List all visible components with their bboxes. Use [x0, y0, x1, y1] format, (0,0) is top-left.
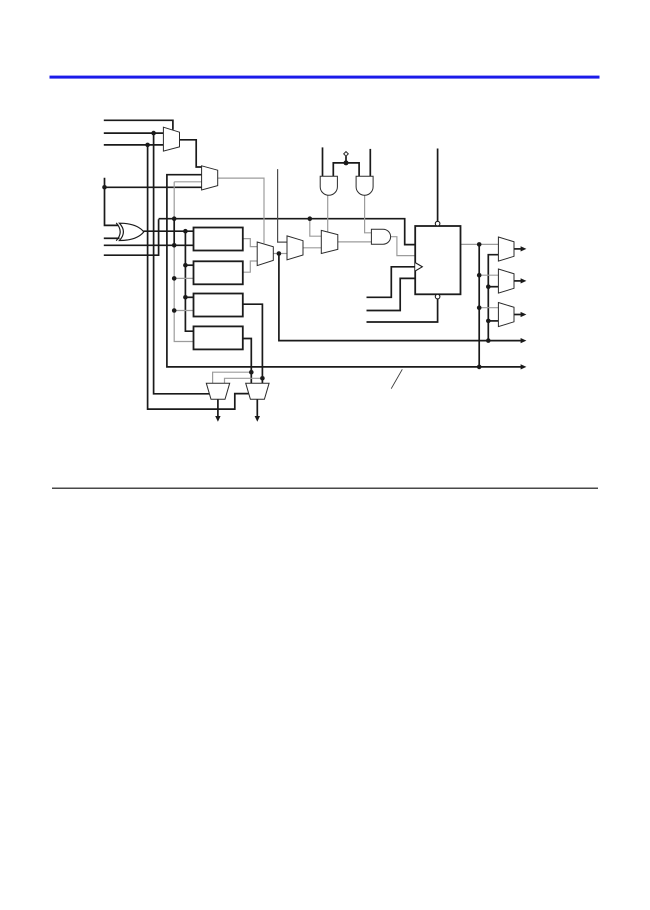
node dot input2	[151, 131, 156, 136]
wire stub to output mux M4 upper input	[479, 243, 498, 245]
wire mux M3 input stub	[278, 169, 287, 242]
and gate G2	[356, 176, 373, 195]
wire U1 Q vertical distribution	[478, 244, 480, 367]
wire mux MC output to gate G3	[338, 241, 372, 243]
wire input 6 to register REG1 clock	[104, 244, 194, 246]
wire input 1 to mux M1 top	[104, 120, 173, 130]
arrowhead mux M4 output	[521, 246, 527, 251]
wire gate G3 output to U1	[391, 237, 416, 256]
wire REG4 output down to mux M8	[243, 339, 252, 384]
xor gate X1 back arc	[116, 223, 120, 241]
wire stub to REG3 data	[185, 296, 193, 298]
node dot XOR output	[183, 229, 188, 234]
header rule (blue)	[50, 76, 600, 79]
wire input stub to XOR X1 top	[105, 178, 119, 226]
node dot Q to out wire	[477, 365, 482, 370]
wire mux M3 output to mux MC	[303, 247, 321, 249]
wire feedback Q to mux M2 and out arrow	[167, 175, 521, 367]
wire stub to output mux M4 lower input	[488, 286, 498, 288]
wire input 5 to XOR X1 bottom	[104, 237, 120, 239]
node dot feedback wire	[486, 338, 491, 343]
mux M3	[287, 236, 303, 260]
wire U1 Q output	[461, 243, 480, 245]
xor gate X1 body	[119, 223, 143, 240]
wire select vertical to mux M8 (right)	[148, 145, 249, 409]
node dot REG4 branch	[249, 370, 254, 375]
mux M7	[206, 383, 229, 399]
wire stub to output mux M5 upper input	[479, 274, 498, 276]
mux M2	[202, 166, 218, 190]
output mux M4	[498, 237, 514, 261]
wire mux M1 output to mux M2	[180, 140, 202, 167]
wire distribution lower grey to REG4 clock	[174, 245, 193, 341]
wire stub to REG2 clock	[174, 277, 193, 279]
wire output arrow of mux M4	[514, 248, 521, 250]
wire REG2 output to mux MA	[243, 261, 257, 272]
mux M1	[163, 127, 179, 151]
wire REG1 output to mux MA	[243, 239, 257, 247]
node dot REG2 data	[183, 263, 188, 268]
wire enable staircase to U1	[367, 278, 416, 310]
arrowhead mux M8 output	[255, 416, 260, 422]
wire branch REG3 path to mux M7	[225, 378, 263, 383]
clock triangle of U1	[415, 263, 422, 271]
output mux M6	[498, 303, 514, 327]
wire stub gate G2 right input	[369, 149, 371, 176]
node dot input4	[102, 185, 107, 190]
node dot REG1 clock	[172, 243, 177, 248]
wire output arrow of mux M6	[514, 314, 521, 316]
node dot REG3 data	[183, 295, 188, 300]
and gate G3	[371, 229, 390, 244]
wire stub to REG2 data	[185, 264, 193, 266]
and gate G1	[320, 176, 337, 195]
mux M8	[246, 383, 269, 399]
register REG1	[194, 228, 243, 251]
wire distribution to mux M2 input	[174, 181, 201, 183]
footer rule	[52, 488, 598, 489]
wire REG3 output down to mux M8	[243, 304, 263, 383]
wire output of mux M7 down	[217, 399, 219, 416]
wire input 4 to mux M2	[105, 186, 202, 188]
wire distribution upper grey segment	[173, 182, 175, 219]
mux MA	[257, 242, 273, 266]
flip-flop U1	[415, 226, 460, 294]
wire output of mux M8 down	[256, 399, 258, 416]
wire A to flip-flop U1 D input	[159, 219, 416, 245]
wire branch REG4 path to mux M7	[213, 372, 252, 383]
wire feedback from mux MA to output muxes	[279, 254, 521, 341]
arrowhead feedback out	[521, 338, 527, 343]
wire gate G2 output to gate G3	[365, 195, 372, 233]
arrowhead Q out	[521, 364, 527, 369]
wire feedback vertical distribution	[488, 255, 498, 341]
node dot Q to mux M4	[477, 242, 482, 247]
wire clock staircase to U1	[367, 267, 416, 298]
node dot Q to mux M5	[477, 273, 482, 278]
wire output arrow of mux M5	[514, 280, 521, 282]
register REG2	[194, 261, 243, 284]
wire mux M2 output to mux MA select	[218, 178, 264, 243]
wire gate G1 output to mux MC select	[327, 195, 329, 233]
wire stub to output mux M5 lower input	[488, 320, 498, 322]
wire node bar feeding gates G1 G2	[333, 163, 359, 176]
wire stub gate G1 left input	[322, 147, 324, 176]
node dot gate bar	[344, 160, 349, 165]
node dot input3	[145, 143, 150, 148]
node dot REG3 branch	[260, 376, 265, 381]
node dot Q to mux M6	[477, 305, 482, 310]
wire select vertical to mux M7 (left)	[154, 133, 210, 394]
node dot feedback mux M5	[486, 284, 491, 289]
output mux M5	[498, 269, 514, 293]
wire input 2 to mux M1	[104, 132, 164, 134]
wire input 7 joining node wire A	[104, 219, 159, 255]
wire mux MA output to mux M3	[273, 253, 287, 255]
wire stub to output mux M6 upper input	[479, 307, 498, 309]
register REG4	[194, 326, 243, 349]
node dot wire A right	[308, 216, 313, 221]
node diamond	[344, 152, 349, 157]
arrowhead mux M7 output	[215, 416, 220, 422]
node dot mux MA output	[277, 251, 282, 256]
node dot REG2 clock	[172, 276, 177, 281]
leader line annotation	[391, 369, 402, 388]
node dot wire A left	[172, 216, 177, 221]
wire distribution vertical segment	[173, 219, 175, 246]
node dot REG3 clock	[172, 308, 177, 313]
arrowhead mux M6 output	[521, 312, 527, 317]
wire bottom bubble staircase of U1	[367, 299, 438, 322]
wire A branch to mux MC upper input	[310, 219, 322, 237]
node dot feedback mux M6	[486, 319, 491, 324]
wire stub to U1 top bubble	[437, 149, 439, 222]
wire node stem	[345, 156, 347, 163]
arrowhead mux M5 output	[521, 278, 527, 283]
bottom bubble of U1	[435, 294, 440, 299]
wire input 3 to mux M1	[104, 144, 164, 146]
wire stub to REG3 clock	[174, 310, 193, 312]
top bubble of U1	[435, 221, 440, 226]
mux MC	[321, 230, 338, 253]
register REG3	[194, 294, 243, 317]
wire data distribution to registers	[185, 231, 193, 331]
wire XOR X1 output to REG1	[144, 230, 194, 232]
